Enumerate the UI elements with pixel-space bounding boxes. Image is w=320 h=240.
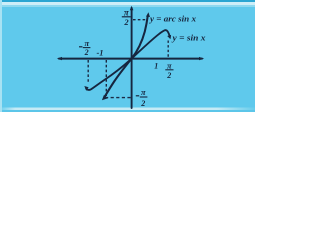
svg-text:π: π	[84, 38, 89, 48]
dashed line at x = -1 (left)	[105, 60, 107, 96]
svg-text:-1: -1	[96, 48, 103, 58]
x-axis left arrow	[57, 57, 62, 60]
label -pi/2 on negative x-axis	[79, 46, 82, 48]
top light band	[0, 2, 255, 5]
sin right arrow	[167, 35, 171, 39]
y-axis	[131, 8, 133, 108]
dashed line at x = -pi/2 (far left)	[87, 60, 89, 84]
curve arcsin right branch	[132, 16, 148, 59]
x-axis	[59, 58, 202, 60]
svg-text:2: 2	[140, 99, 145, 108]
curve arcsin left branch	[105, 59, 132, 97]
svg-text:π: π	[167, 60, 172, 70]
svg-text:y = sin x: y = sin x	[171, 33, 205, 42]
label -pi/2 at bottom of y-axis	[136, 95, 139, 97]
arcsin right arrow	[146, 12, 150, 17]
top dark edge	[0, 0, 255, 2]
curve sin left branch	[86, 59, 131, 90]
x-axis right arrow	[199, 57, 204, 60]
svg-text:π: π	[141, 87, 146, 97]
dashed line at y = -pi/2 (bottom)	[105, 97, 131, 99]
svg-text:2: 2	[123, 17, 129, 27]
sin left arrow	[84, 86, 88, 91]
svg-text:y = arc sin x: y = arc sin x	[149, 15, 196, 24]
left light edge	[0, 0, 2, 112]
svg-text:2: 2	[84, 48, 89, 57]
y-axis top arrow	[130, 6, 134, 10]
curve sin right branch	[132, 30, 170, 58]
dashed line at y = pi/2 (top right)	[133, 19, 147, 21]
svg-text:1: 1	[154, 62, 158, 71]
dashed line at x = pi/2 (right)	[167, 41, 169, 58]
graph figure: y = arcsin x and y = sin x on blue scanned page	[0, 0, 255, 112]
bottom light band	[0, 108, 255, 111]
svg-text:2: 2	[166, 71, 171, 80]
arcsin left arrow	[102, 95, 108, 100]
